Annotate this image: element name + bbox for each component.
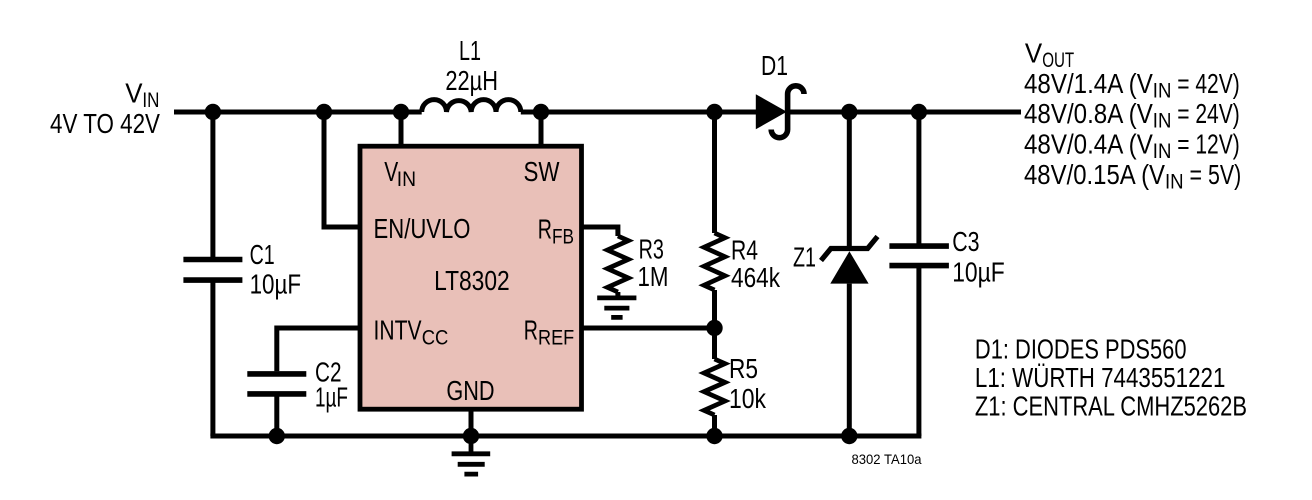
capacitor C1 (183, 260, 242, 281)
svg-text:464k: 464k (731, 262, 781, 293)
wire: output node to R4 (712, 112, 717, 233)
svg-text:10k: 10k (729, 383, 767, 414)
wire: input rail VIN (174, 110, 422, 115)
svg-text:IN: IN (1165, 171, 1184, 194)
wire: VIN pin stub (399, 112, 404, 148)
resistor R3 (607, 236, 628, 292)
svg-text:48V/0.8A (V: 48V/0.8A (V (1024, 98, 1153, 129)
op-amp/IC U1 LT8302 body (360, 146, 582, 409)
wire: R4 to RREF node (712, 290, 717, 328)
svg-text:V: V (1025, 38, 1043, 69)
svg-text:R3: R3 (639, 234, 664, 265)
svg-text:C1: C1 (250, 239, 275, 270)
svg-text:EN/UVLO: EN/UVLO (374, 213, 471, 244)
svg-text:INTV: INTV (374, 315, 422, 346)
svg-text:1M: 1M (638, 261, 669, 292)
svg-text:R: R (524, 315, 538, 346)
svg-text:L1: WÜRTH 7443551221: L1: WÜRTH 7443551221 (975, 362, 1226, 393)
svg-text:FB: FB (552, 226, 574, 249)
capacitor C2 (247, 374, 306, 394)
svg-text:IN: IN (1153, 79, 1172, 102)
wire: left vertical to C1 (210, 112, 215, 257)
svg-text:D1: DIODES PDS560: D1: DIODES PDS560 (975, 333, 1187, 364)
wire: Z1 anode to ground rail (847, 284, 852, 436)
svg-text:CC: CC (422, 326, 449, 349)
svg-text:R: R (538, 213, 552, 244)
wire: INTVcc branch to C2 (277, 328, 360, 371)
svg-text:1µF: 1µF (315, 382, 348, 413)
svg-text:R5: R5 (729, 353, 758, 384)
svg-text:C3: C3 (952, 226, 979, 257)
diode D1 schottky cathode bar (771, 86, 804, 138)
svg-text:8302 TA10a: 8302 TA10a (852, 451, 922, 467)
svg-text:IN: IN (1153, 110, 1172, 133)
wire: RFB stub to R3 (582, 227, 618, 236)
svg-text:IN: IN (397, 168, 416, 191)
svg-text:4V TO 42V: 4V TO 42V (50, 108, 160, 139)
svg-text:= 12V): = 12V) (1171, 129, 1239, 160)
zener Z1 cathode bar (821, 237, 878, 261)
svg-text:48V/1.4A (V: 48V/1.4A (V (1024, 68, 1153, 99)
svg-text:GND: GND (446, 375, 494, 406)
svg-text:REF: REF (538, 326, 574, 349)
zener Z1 triangle (830, 251, 868, 283)
ground (GND pin) (452, 436, 491, 474)
svg-text:D1: D1 (761, 50, 788, 81)
capacitor C3 (889, 246, 949, 266)
wire: output to C3 (916, 112, 921, 246)
svg-text:V: V (125, 77, 143, 108)
wire: output to Z1 cathode (847, 112, 852, 249)
svg-text:Z1: CENTRAL CMHZ5262B: Z1: CENTRAL CMHZ5262B (975, 391, 1247, 422)
svg-text:R4: R4 (731, 235, 758, 266)
wire: C3 to ground rail (916, 266, 921, 436)
svg-text:L1: L1 (459, 35, 481, 66)
wire: SW to diode anode (521, 110, 756, 115)
wire: RREF wire to divider (582, 326, 715, 331)
resistor R5 (704, 359, 725, 415)
svg-text:48V/0.15A (V: 48V/0.15A (V (1024, 159, 1165, 190)
svg-text:Z1: Z1 (793, 242, 816, 273)
svg-text:10µF: 10µF (250, 269, 302, 300)
svg-text:= 5V): = 5V) (1184, 159, 1242, 190)
svg-text:22µH: 22µH (445, 65, 498, 96)
wire: diode cathode to output (789, 110, 1021, 115)
svg-text:= 24V): = 24V) (1171, 98, 1239, 129)
wire: EN/UVLO branch (324, 112, 360, 227)
wire: C1 to ground rail (210, 282, 215, 436)
svg-text:SW: SW (524, 156, 560, 187)
svg-text:= 42V): = 42V) (1171, 68, 1239, 99)
resistor R4 (704, 233, 725, 290)
wire: GND pin stub (469, 408, 474, 436)
svg-text:LT8302: LT8302 (434, 265, 510, 296)
wire: ground rail (210, 434, 921, 439)
wire: RREF node to R5 (712, 328, 717, 359)
wire: SW pin stub (539, 112, 544, 148)
svg-text:48V/0.4A (V: 48V/0.4A (V (1024, 129, 1153, 160)
svg-text:10µF: 10µF (952, 256, 1005, 287)
diode D1 triangle (756, 94, 787, 129)
wire: R5 to ground rail (712, 415, 717, 436)
junction dots (205, 104, 221, 120)
wire: C2 to ground rail (274, 396, 279, 436)
inductor L1 (422, 100, 521, 112)
ground (R3) (597, 298, 636, 318)
